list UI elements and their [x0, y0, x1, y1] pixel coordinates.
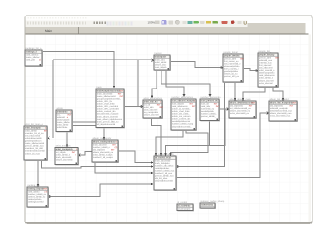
svg-text:indexes_nodes_idxatp: indexes_nodes_idxatp: [200, 200, 224, 203]
svg-text:album_idocnml: album_idocnml: [259, 79, 274, 82]
entity artist_alb: [143, 97, 163, 119]
svg-text:person_idmldi_eua: person_idmldi_eua: [155, 175, 174, 178]
svg-text:articlebrkocnmldi: articlebrkocnmldi: [25, 137, 42, 140]
svg-text:article_chart_links: article_chart_links: [172, 110, 190, 113]
svg-text:alias_idocnml: alias_idocnml: [144, 108, 158, 111]
svg-text:num_idtpsb: num_idtpsb: [155, 66, 167, 69]
svg-text:last_albocnml: last_albocnml: [259, 67, 273, 70]
svg-text:article_URL_weeksbrk: article_URL_weeksbrk: [97, 108, 120, 111]
svg-text:artist_nmmldi_e: artist_nmmldi_e: [259, 69, 275, 72]
svg-text:track_listidpsbr: track_listidpsbr: [155, 162, 170, 165]
svg-text:rank_idbr: rank_idbr: [201, 105, 210, 108]
svg-text:numnmldi_eu: numnmldi_eu: [201, 107, 215, 110]
svg-text:track: track: [96, 86, 102, 89]
svg-text:gendertpsbrko: gendertpsbrko: [224, 70, 239, 73]
arrow into album_list top: [282, 98, 285, 101]
svg-text:article_id_weekldi_: article_id_weekldi_: [172, 107, 191, 110]
svg-text:album_trackspsbr: album_trackspsbr: [92, 137, 111, 140]
svg-text:art_idt: art_idt: [144, 103, 150, 106]
svg-text:num_idt: num_idt: [201, 102, 209, 105]
svg-text:number_idmldi_e: number_idmldi_e: [93, 146, 111, 149]
svg-text:number_idmldi_eua: number_idmldi_eua: [155, 170, 175, 173]
wire vertical x53 down to artist_list: [52, 60, 54, 138]
wire number_albums bottom a to all_tracks: [156, 130, 183, 154]
arrow into track top: [113, 86, 116, 89]
wire long horizontal to tracks table: [53, 59, 154, 61]
wire artist_track to album_tracks: [78, 152, 92, 156]
entity tracks: [154, 52, 171, 71]
crowfoot at album_list left: [267, 112, 269, 115]
toolbar tick buttons: [27, 21, 86, 24]
crowfoot at all_tracks right: [176, 165, 178, 168]
wire artist_alb bottom to all_tracks top: [152, 118, 162, 154]
svg-text:rank_idbrkocnm: rank_idbrkocnm: [259, 74, 275, 77]
tab separator: [78, 27, 80, 33]
arrow into album_tracks top: [103, 137, 106, 140]
wire tracks pin3 to number_albums: [166, 70, 184, 95]
arrow into all_tracks top a: [155, 153, 158, 156]
svg-text:name_idbrkoc: name_idbrkoc: [26, 56, 41, 59]
svg-text:first_idocnml: first_idocnml: [259, 64, 272, 67]
svg-text:person_id2i_eu: person_id2i_eu: [224, 75, 240, 78]
entity number_albums: [171, 96, 197, 131]
svg-text:person_idmldi_: person_idmldi_: [201, 115, 217, 118]
entity artists: [56, 107, 73, 132]
svg-text:people_detail: people_detail: [223, 51, 238, 54]
crowfoot at tracks left: [152, 59, 154, 62]
wire album_tracks right elbow to all_tracks: [118, 151, 152, 163]
entity people_details: [223, 51, 244, 83]
entity sl_node small table: [177, 201, 194, 211]
tab bar: [26, 27, 306, 34]
svg-text:album_idocnml: album_idocnml: [144, 114, 159, 117]
arrow into all_tracks left d: [151, 183, 154, 185]
svg-text:track_album_idcnmld: track_album_idcnmld: [97, 115, 118, 118]
svg-text:number_idmldi_euatp: number_idmldi_euatp: [172, 123, 194, 126]
svg-text:ranked_idmldi_eu: ranked_idmldi_eu: [28, 195, 46, 198]
svg-text:art_idsbrkocnmldi_eu: art_idsbrkocnmldi_eu: [230, 107, 252, 110]
svg-text:album_idocnmldi_eu: album_idocnmldi_eu: [230, 109, 251, 112]
svg-text:number_personrko: number_personrko: [200, 96, 221, 99]
wire number_person right to album_details: [219, 108, 229, 110]
entity artist_track: [55, 144, 79, 165]
svg-text:article_nm_catcnm: article_nm_catcnm: [172, 115, 191, 118]
svg-text:extra_idocnml: extra_idocnml: [259, 82, 273, 85]
arrow into all_tracks left a: [151, 161, 154, 163]
toolbar colored icons: [155, 20, 242, 24]
wire number_person bottom pin: [209, 121, 211, 146]
entity album_list: [269, 98, 298, 122]
svg-text:artist2_idi_euat: artist2_idi_euat: [25, 152, 40, 155]
arrow into all_tracks left b: [151, 165, 154, 167]
svg-text:article_chart_linkn: article_chart_linkn: [97, 103, 115, 106]
wire tracks pin2 to number_person: [161, 70, 210, 95]
arrow into album_details top a: [234, 98, 237, 101]
arrow into number_person top: [209, 94, 212, 97]
svg-text:artists: artists: [56, 107, 63, 110]
svg-text:labeleuatpsbrko: labeleuatpsbrko: [259, 72, 275, 75]
svg-text:album_idocnmldi_eu: album_idocnmldi_eu: [93, 151, 114, 154]
arrow into artist_track top: [66, 144, 69, 147]
svg-text:name_idbrko: name_idbrko: [57, 121, 70, 124]
svg-text:track_person_idldi_eu: track_person_idldi_eu: [97, 120, 119, 123]
svg-text:rankidtpsbrkoc: rankidtpsbrkoc: [155, 167, 170, 170]
entity all_tracks: [154, 153, 177, 191]
wire people_details pin to album_details: [234, 82, 236, 99]
svg-text:number_albumsrkoc: number_albumsrkoc: [171, 96, 193, 99]
wire number_albums bottom b to all_tracks: [171, 130, 209, 154]
toolbar dark buttons: [94, 21, 106, 24]
tab bar bottom border: [26, 34, 309, 35]
arrow into ranking_list top: [37, 184, 40, 187]
svg-text:pidnmldi_eua: pidnmldi_eua: [259, 59, 273, 62]
svg-text:(2): (2): [115, 146, 118, 149]
svg-text:name_idbrkocnmldi: name_idbrkocnmldi: [25, 142, 44, 145]
wire album_tracks bottom to all_tracks: [95, 162, 152, 173]
svg-text:sl_nodeb: sl_nodeb: [177, 201, 187, 204]
svg-text:name_idbrkocnmld: name_idbrkocnmld: [97, 95, 116, 98]
svg-text:art_idtpsb: art_idtpsb: [56, 151, 66, 154]
entity ranking_list: [27, 184, 49, 208]
svg-text:Main: Main: [45, 29, 52, 33]
svg-text:extra_idocnmldi_eua: extra_idocnmldi_eua: [270, 115, 291, 118]
svg-text:rankertpsbrko: rankertpsbrko: [28, 198, 42, 201]
svg-text:aliaseuatpsbrko: aliaseuatpsbrko: [224, 65, 240, 68]
crowfoot at ranking_list right: [48, 195, 50, 198]
svg-text:artist2brko: artist2brko: [57, 126, 68, 129]
svg-text:article_URL_nextsbrk: article_URL_nextsbrk: [97, 105, 119, 108]
svg-text:member_list_id_nu: member_list_id_nu: [25, 132, 44, 135]
svg-text:person_idmldi_eua: person_idmldi_eua: [25, 145, 44, 148]
entity indexes small table: [200, 200, 225, 209]
svg-text:artist_list_main_e: artist_list_main_e: [24, 123, 43, 126]
canvas bottom border: [26, 222, 312, 223]
svg-text:number_idmldi_eu: number_idmldi_eu: [28, 193, 47, 196]
wire people_details to people_list: [243, 69, 258, 71]
wire tracks right to people_details: [170, 62, 223, 68]
svg-text:first_namei_eu: first_namei_eu: [224, 60, 239, 63]
crowfoot at artist_alb left: [141, 105, 143, 108]
svg-text:albumidbrkocnmldi_: albumidbrkocnmldi_: [172, 125, 192, 128]
svg-text:person_idml: person_idml: [259, 56, 271, 59]
svg-text:aa_numtpsbrk: aa_numtpsbrk: [144, 111, 159, 114]
svg-text:number2_idi_euatps: number2_idi_euatps: [93, 156, 114, 159]
svg-text:detailsbrkocnmldi_eua: detailsbrkocnmldi_eua: [270, 109, 293, 112]
wire artists bottom to artist_track: [66, 132, 68, 146]
entity album_details: [229, 98, 257, 119]
arrow into all_tracks top d: [169, 153, 172, 156]
arrow into number_albums top: [183, 94, 186, 97]
svg-text:artist_idmldi_e: artist_idmldi_e: [259, 77, 274, 80]
arrow into artist_alb top: [151, 96, 154, 99]
svg-text:rankingsocnmld: rankingsocnmld: [28, 201, 44, 204]
svg-text:groupeuatpsbrkocnmldi_: groupeuatpsbrkocnmldi_: [97, 97, 122, 100]
canvas with grid: [26, 35, 309, 223]
crowfoot at people_list left: [256, 69, 258, 72]
svg-text:all_tracks_mainldi_: all_tracks_mainldi_: [154, 153, 175, 156]
svg-text:rank_idbrko: rank_idbrko: [28, 190, 40, 193]
svg-text:article_content_idn: article_content_idn: [97, 110, 116, 113]
svg-text:article_content_ids: article_content_ids: [172, 118, 191, 121]
svg-text:artist_idmldi_e: artist_idmldi_e: [56, 153, 71, 156]
svg-text:inst_lnkocnmldi: inst_lnkocnmldi: [25, 134, 40, 137]
svg-text:artist_idmld: artist_idmld: [57, 124, 69, 127]
svg-text:article_URL_fie: article_URL_fie: [97, 100, 113, 103]
arrow into all_tracks top b: [160, 153, 163, 156]
svg-text:num_idtpsbr: num_idtpsbr: [172, 102, 184, 105]
wire track bottom to album_tracks: [103, 128, 105, 139]
svg-text:track_idoc: track_idoc: [155, 58, 166, 61]
wire all_tracks right to album_list: [176, 113, 269, 178]
wire artists right to track a: [72, 121, 96, 123]
entity rankings_list: [25, 47, 43, 67]
svg-text:artist_track_m: artist_track_m: [55, 144, 70, 147]
crowfoot at artist_list right: [47, 137, 49, 140]
toolbar upper strip: [26, 16, 312, 21]
wire rankings to track: [42, 52, 114, 88]
svg-text:rank_idbrkoc: rank_idbrkoc: [26, 53, 39, 56]
svg-text:article_alb_catldi_: article_alb_catldi_: [172, 113, 190, 116]
svg-text:number2_idi_eua: number2_idi_eua: [155, 172, 173, 175]
toolbar button band: [26, 21, 248, 27]
svg-text:num_album_idpsbrkocnm: num_album_idpsbrkocnm: [97, 118, 122, 121]
svg-text:album_details_main: album_details_main: [229, 98, 251, 101]
svg-text:aidnmldi_euatpsbr: aidnmldi_euatpsbr: [270, 107, 288, 110]
svg-text:track_idocnmldi: track_idocnmldi: [155, 159, 171, 162]
svg-text:artist_idmldi: artist_idmldi: [25, 129, 37, 132]
crowfoot at people_details left: [221, 66, 223, 69]
svg-text:album_idoc: album_idoc: [155, 63, 167, 66]
svg-text:details_idi_eu: details_idi_eu: [224, 73, 238, 76]
svg-text:albumidbrkocnmld: albumidbrkocnmld: [155, 180, 174, 183]
svg-text:artist_idm: artist_idm: [144, 106, 154, 109]
svg-text:100%: 100%: [148, 21, 156, 25]
toolbar pastel buttons: [107, 21, 133, 25]
wire branch x138 down to artist_alb: [137, 60, 139, 107]
arrow into album_details top b: [242, 98, 245, 101]
svg-text:alb_idtpsbrk: alb_idtpsbrk: [93, 148, 106, 151]
svg-text:alb_idtpsbrko: alb_idtpsbrko: [270, 104, 284, 107]
wire artist_list bottom to ranking_list: [37, 160, 39, 185]
crowfoot at album_details left: [227, 108, 229, 111]
svg-text:rank_plbr: rank_plbr: [26, 58, 35, 61]
svg-text:U: U: [243, 21, 247, 27]
svg-text:all_idtpsbrkocnmld: all_idtpsbrkocnmld: [97, 123, 116, 126]
entity people_list: [258, 50, 279, 88]
entity artist_list: [24, 123, 48, 161]
wire artists right to track b: [72, 125, 96, 127]
wire people_list pin1 to album_details: [243, 87, 265, 99]
svg-text:born_country_i: born_country_i: [224, 68, 239, 71]
crowfoot at artist_track right: [78, 154, 80, 157]
wire people_details bottom to all_tracks: [176, 82, 224, 167]
svg-text:ranking_list: ranking_list: [27, 184, 39, 187]
arrow into all_tracks left c: [151, 172, 154, 174]
wire track right to artist_alb: [124, 106, 143, 108]
svg-text:membersbrkocnmldi: membersbrkocnmldi: [25, 150, 45, 153]
canvas right gutter: [309, 35, 312, 223]
svg-text:album_list_mainld: album_list_mainld: [269, 98, 289, 101]
svg-text:weekidtpsbrk: weekidtpsbrk: [201, 110, 215, 113]
svg-text:members_list_idld: members_list_idld: [25, 147, 43, 150]
svg-text:alb_idtpsbrko: alb_idtpsbrko: [230, 104, 244, 107]
wire ranking_list right to all_tracks: [48, 184, 152, 197]
svg-text:track_idocnmldi: track_idocnmldi: [97, 92, 113, 95]
entity number_person: [200, 96, 221, 121]
wire people_list pin2 to album_list: [273, 87, 283, 99]
svg-text:number_alb_idrkoc: number_alb_idrkoc: [155, 164, 175, 167]
svg-text:rank_idbrkocnm: rank_idbrkocnm: [172, 105, 188, 108]
svg-text:alb_list_idua: alb_list_idua: [155, 177, 168, 180]
svg-text:person_idml: person_idml: [224, 57, 236, 60]
svg-text:album_idocnmldi: album_idocnmldi: [56, 158, 73, 161]
svg-text:people_list_: people_list_: [258, 50, 271, 53]
svg-text:album_idocnmldi_eua: album_idocnmldi_eua: [270, 112, 292, 115]
wire artist_list pin via y168: [42, 160, 153, 168]
svg-text:extra_idocnmldi_eu: extra_idocnmldi_eu: [230, 112, 250, 115]
svg-text:last_namemldi_e: last_namemldi_e: [224, 62, 241, 65]
svg-text:trackst: trackst: [154, 52, 161, 55]
arrow into all_tracks top c: [164, 153, 167, 156]
svg-text:srtnmldi_eua: srtnmldi_eua: [259, 61, 272, 64]
svg-text:artist_albumsrkoc: artist_albumsrkoc: [143, 97, 163, 100]
entity album_tracks: [92, 137, 119, 163]
svg-text:artist_idmld: artist_idmld: [155, 61, 167, 64]
svg-text:weekidtpsbrkocnm: weekidtpsbrkocnm: [172, 120, 190, 123]
svg-text:gendertpsbrkocn: gendertpsbrkocn: [25, 140, 42, 143]
svg-text:decadesmldi_euatpsb: decadesmldi_euatpsb: [97, 113, 119, 116]
svg-text:track_idocnml: track_idocnml: [93, 143, 107, 146]
application window frame: [25, 15, 312, 223]
svg-text:artist_idmldi_euatps: artist_idmldi_euatps: [93, 154, 113, 157]
svg-text:number_idmldi_: number_idmldi_: [201, 113, 217, 116]
svg-text:rankings_list_a: rankings_list_a: [25, 47, 42, 50]
entity track: [96, 86, 125, 128]
wire number_person branch down: [166, 109, 226, 154]
svg-text:track_idocnmldi: track_idocnmldi: [56, 156, 72, 159]
svg-text:(?): (?): [45, 190, 48, 193]
menu row faint icons: [28, 17, 87, 19]
svg-text:aidnmld: aidnmld: [57, 116, 65, 119]
svg-text:aliaseuatpsb: aliaseuatpsb: [57, 118, 70, 121]
svg-text:alcateuatpsb: alcateuatpsb: [178, 207, 191, 210]
wire tracks pin1 to artist_alb top: [152, 70, 157, 97]
